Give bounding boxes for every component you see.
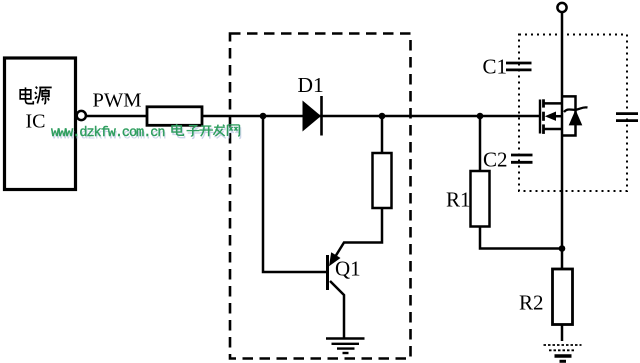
svg-text:Q1: Q1 bbox=[335, 257, 361, 281]
svg-text:C2: C2 bbox=[483, 148, 508, 172]
svg-text:D1: D1 bbox=[298, 73, 324, 97]
svg-text:R2: R2 bbox=[519, 291, 544, 315]
svg-text:C1: C1 bbox=[483, 55, 508, 79]
svg-text:PWM: PWM bbox=[93, 90, 142, 112]
svg-text:IC: IC bbox=[26, 111, 46, 133]
svg-text:R1: R1 bbox=[446, 188, 471, 212]
svg-text:www.dzkfw.com.cn: www.dzkfw.com.cn bbox=[51, 126, 166, 141]
